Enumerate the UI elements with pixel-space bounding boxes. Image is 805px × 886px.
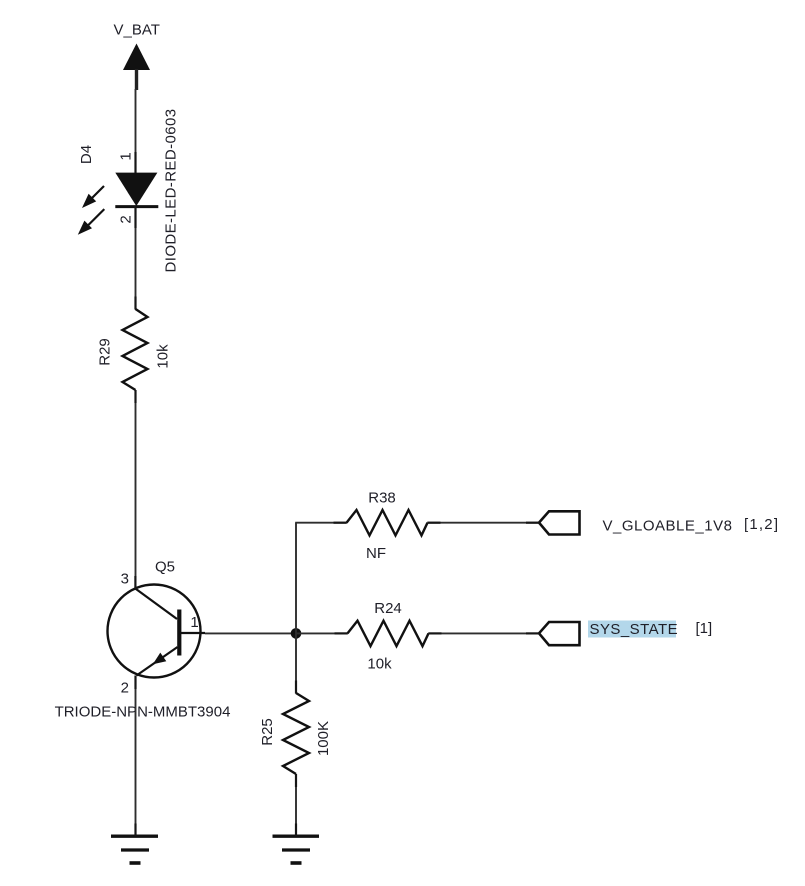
off-page flag SYS_STATE [539,622,580,645]
junction node [291,628,302,639]
wire corner to R38 [295,522,346,524]
svg-text:R24: R24 [374,600,402,617]
transistor Q5 [108,585,206,678]
ground (left) [111,836,158,863]
resistor R29 [123,309,148,390]
svg-text:V_GLOABLE_1V8: V_GLOABLE_1V8 [603,518,733,535]
svg-text:[1]: [1] [696,620,713,637]
wire R24 left [296,632,348,634]
wire D4 cathode to R29 [135,207,137,309]
svg-text:Q5: Q5 [155,559,175,576]
svg-text:100K: 100K [315,721,332,756]
svg-text:NF: NF [366,545,386,562]
LED emission arrow 1 [82,186,104,208]
svg-text:R38: R38 [368,490,396,507]
LED D4 [115,173,158,207]
ground (right) [273,836,320,863]
svg-text:2: 2 [121,680,129,697]
wire R24 to flag [429,632,540,634]
resistor R38 [347,510,428,535]
svg-text:1: 1 [190,614,198,631]
wire R25 to ground [295,774,297,836]
svg-text:SYS_STATE: SYS_STATE [590,621,679,638]
svg-text:3: 3 [121,571,129,588]
svg-text:[1,2]: [1,2] [744,516,779,533]
svg-text:R25: R25 [259,718,276,746]
resistor R24 [348,621,429,646]
wire node up to R38 branch [295,523,297,634]
svg-text:2: 2 [117,215,134,223]
wire V_BAT to D4 anode [135,89,137,173]
pin stubs (darker lead ends) [135,152,539,836]
svg-text:10k: 10k [367,656,392,673]
svg-text:10k: 10k [154,344,171,369]
svg-text:D4: D4 [78,145,95,164]
svg-text:V_BAT: V_BAT [113,22,159,39]
resistor R25 [283,693,309,774]
svg-text:TRIODE-NPN-MMBT3904: TRIODE-NPN-MMBT3904 [55,704,231,721]
wire R29 to Q5 collector [135,390,137,589]
wire node down to R25 [295,633,297,693]
svg-text:R29: R29 [96,338,113,366]
svg-text:1: 1 [117,152,134,160]
off-page flag V_GLOABLE_1V8 [539,511,580,534]
wire Q5 emitter to ground [135,676,137,837]
wire Q5 base to node [205,632,296,634]
svg-text:DIODE-LED-RED-0603: DIODE-LED-RED-0603 [162,109,179,273]
LED emission arrow 2 [78,209,105,235]
wire R38 to flag [428,522,540,524]
power symbol V_BAT [113,22,159,91]
net label SYS_STATE (highlighted) [588,621,678,639]
